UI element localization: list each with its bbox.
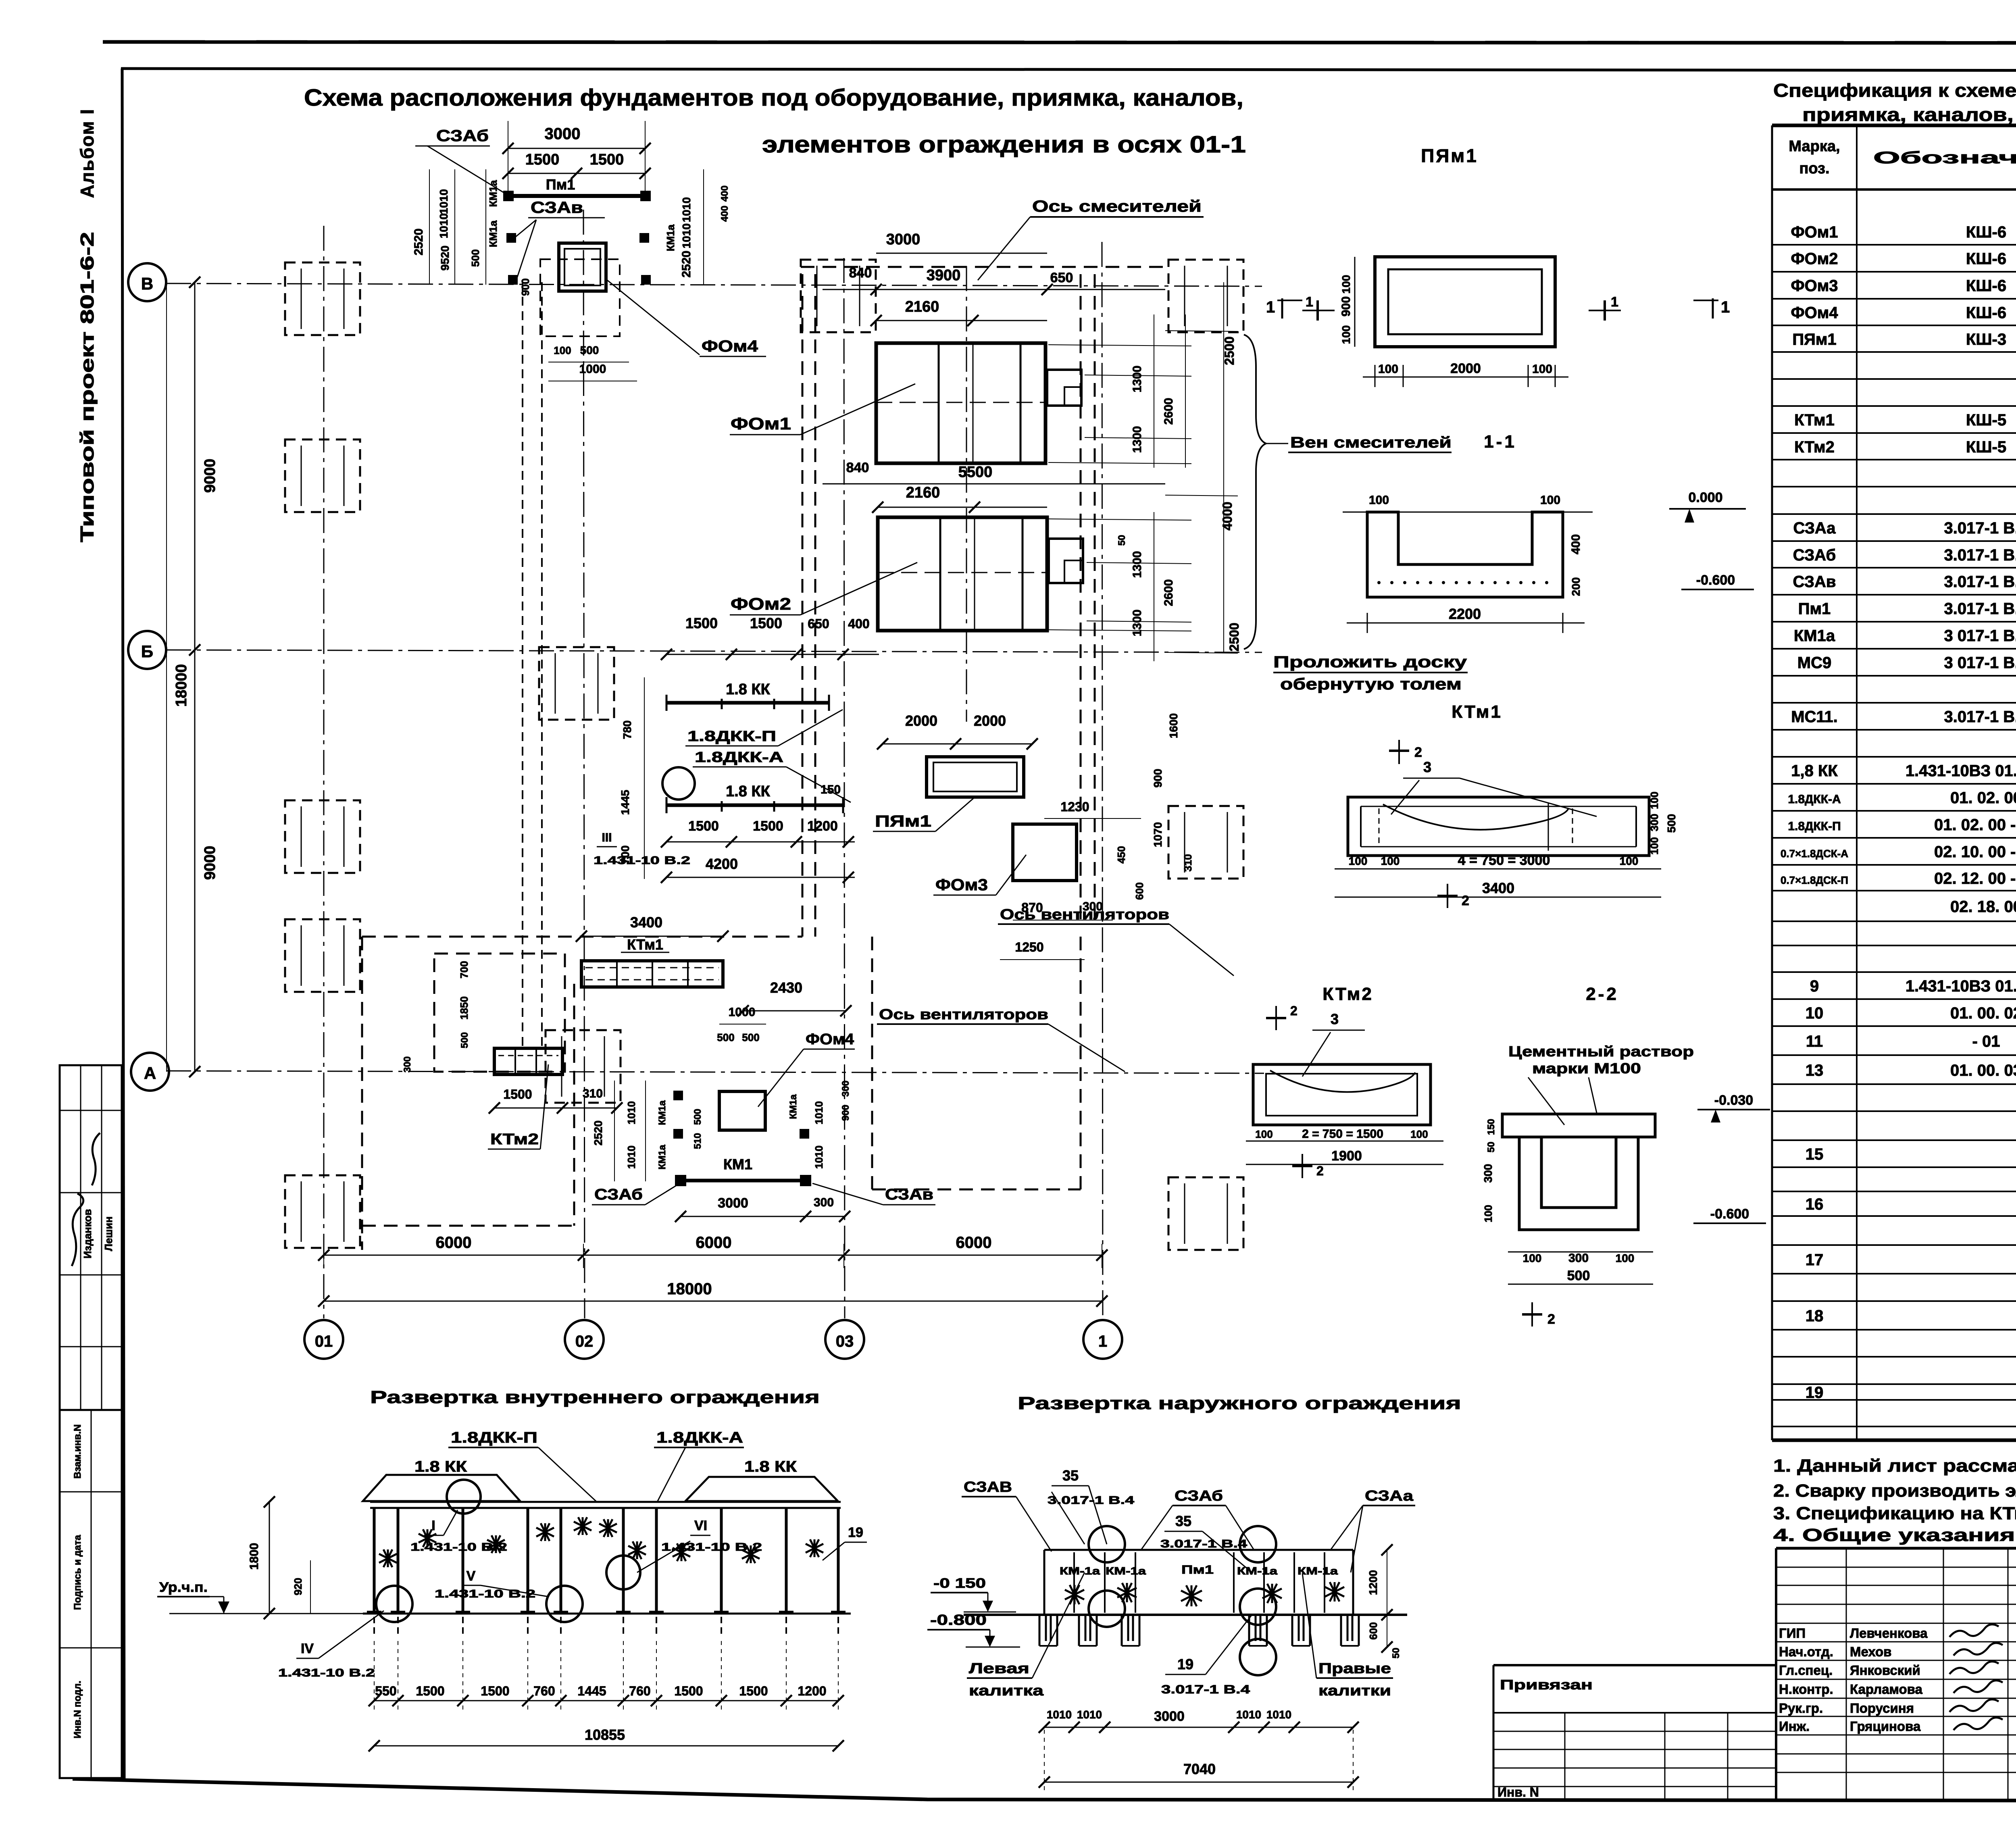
svg-text:КМ-1а: КМ-1а xyxy=(1297,1565,1338,1577)
external dim 7040 xyxy=(1039,1730,1359,1790)
svg-text:3. Спецификацию на КТм1, КТм2,: 3. Спецификацию на КТм1, КТм2, ПЯм1 см. … xyxy=(1773,1503,2016,1523)
dim 3000 top xyxy=(502,121,651,194)
svg-text:2: 2 xyxy=(1414,745,1422,760)
svg-text:Взам.инв.N: Взам.инв.N xyxy=(72,1424,83,1479)
svg-text:2: 2 xyxy=(1290,1004,1297,1018)
svg-text:3.017-1 В.2: 3.017-1 В.2 xyxy=(1944,600,2016,618)
svg-text:3400: 3400 xyxy=(630,914,662,931)
svg-text:Привязан: Привязан xyxy=(1500,1677,1593,1693)
svg-text:Типовой проект 801-6-2: Типовой проект 801-6-2 xyxy=(77,232,98,542)
svg-text:1500: 1500 xyxy=(590,151,624,168)
svg-text:ГИП: ГИП xyxy=(1779,1626,1806,1641)
svg-text:Проложить доску: Проложить доску xyxy=(1273,653,1467,671)
elevation internal title xyxy=(370,1387,820,1407)
svg-text:СЗАв: СЗАв xyxy=(531,199,583,217)
svg-text:КМ1а: КМ1а xyxy=(657,1145,668,1170)
external mesh symbols xyxy=(1065,1582,1344,1606)
label Пм1 xyxy=(546,176,575,193)
svg-text:700: 700 xyxy=(458,961,470,978)
svg-text:2600: 2600 xyxy=(1162,579,1175,606)
svg-text:100: 100 xyxy=(1620,855,1639,867)
svg-text:650: 650 xyxy=(1050,270,1073,285)
table rows details xyxy=(1806,976,2016,1079)
dim 2000 2000 ПЯм1 xyxy=(877,712,1038,750)
svg-text:КМ-1а: КМ-1а xyxy=(1106,1565,1146,1577)
callout V xyxy=(435,1568,548,1600)
svg-text:100: 100 xyxy=(554,344,571,356)
svg-text:КТм1: КТм1 xyxy=(627,936,663,953)
internal fence posts xyxy=(367,1508,846,1613)
label СЗАб top xyxy=(415,127,504,193)
dim 1500 1500 1200 below fence xyxy=(661,818,855,883)
svg-text:Ур.ч.п.: Ур.ч.п. xyxy=(159,1580,208,1595)
svg-text:2: 2 xyxy=(1547,1312,1555,1327)
svg-text:марки М100: марки М100 xyxy=(1532,1060,1641,1077)
table rows channels xyxy=(1794,410,2016,456)
svg-text:03: 03 xyxy=(836,1333,854,1350)
svg-text:А: А xyxy=(144,1064,156,1083)
svg-text:Рук.гр.: Рук.гр. xyxy=(1779,1701,1823,1716)
svg-text:50: 50 xyxy=(1116,535,1127,546)
label Ось вентиляторов 1 xyxy=(998,906,1234,976)
svg-text:2000: 2000 xyxy=(905,712,937,729)
axis line 02 vertical xyxy=(583,210,585,1318)
table rows standard items xyxy=(1806,1144,2016,1325)
table rows posts xyxy=(1781,518,2016,916)
detail ПЯм1 dimensions xyxy=(1339,257,1568,387)
svg-text:1.8ДКК-А: 1.8ДКК-А xyxy=(1788,793,1841,806)
svg-text:КМ1а: КМ1а xyxy=(657,1100,668,1125)
svg-text:Лешин: Лешин xyxy=(102,1216,115,1251)
dashed pit square 11 xyxy=(546,1030,621,1103)
dashed pit square 4 xyxy=(285,919,360,992)
axis circle А xyxy=(131,1053,169,1091)
svg-text:2520: 2520 xyxy=(412,229,425,256)
svg-text:02: 02 xyxy=(575,1333,594,1350)
svg-text:3 017-1 В.5: 3 017-1 В.5 xyxy=(1944,627,2016,645)
svg-text:1230: 1230 xyxy=(1060,800,1089,814)
svg-text:I: I xyxy=(431,1518,435,1533)
dim extension lines right of ФОм2 xyxy=(1048,519,1191,631)
svg-text:760: 760 xyxy=(629,1684,650,1698)
svg-text:3: 3 xyxy=(1331,1011,1339,1027)
svg-text:1600: 1600 xyxy=(1167,713,1180,738)
svg-text:1000: 1000 xyxy=(579,362,606,376)
svg-text:300: 300 xyxy=(840,1081,851,1097)
svg-text:элементов ограждения в осях 01: элементов ограждения в осях 01-1 xyxy=(762,131,1246,158)
svg-text:2600: 2600 xyxy=(1162,398,1175,425)
svg-text:100: 100 xyxy=(1532,362,1552,376)
svg-text:100: 100 xyxy=(1378,362,1398,376)
external below-ground posts xyxy=(1039,1615,1359,1646)
svg-text:1.8 КК: 1.8 КК xyxy=(744,1458,797,1475)
svg-text:9000: 9000 xyxy=(202,459,219,493)
svg-text:6000: 6000 xyxy=(696,1234,732,1252)
svg-text:1.8ДКК-П: 1.8ДКК-П xyxy=(687,728,776,744)
node circle V elev xyxy=(546,1586,583,1622)
foundation ФОм4 bottom xyxy=(719,1091,765,1130)
dashed pit square 2 xyxy=(285,439,360,512)
svg-text:КТм2: КТм2 xyxy=(1322,984,1373,1004)
svg-text:ПЯм1: ПЯм1 xyxy=(875,812,931,830)
svg-text:2000: 2000 xyxy=(974,712,1006,729)
svg-text:1300: 1300 xyxy=(1131,426,1144,453)
svg-text:1.8 КК: 1.8 КК xyxy=(726,783,771,800)
svg-text:Янковский: Янковский xyxy=(1850,1663,1920,1678)
svg-text:02. 18. 00: 02. 18. 00 xyxy=(1950,898,2016,916)
axis line 01 vertical xyxy=(323,226,325,1318)
internal fence ground line xyxy=(363,1613,851,1615)
svg-text:650: 650 xyxy=(808,616,829,631)
svg-text:поз.: поз. xyxy=(1799,160,1829,177)
svg-text:2500: 2500 xyxy=(1227,623,1241,651)
svg-text:840: 840 xyxy=(846,460,869,475)
svg-text:920: 920 xyxy=(292,1578,304,1595)
svg-text:500: 500 xyxy=(469,249,481,267)
svg-text:9: 9 xyxy=(1810,977,1819,995)
svg-text:ФОм1: ФОм1 xyxy=(1791,223,1838,241)
axis circle 01 xyxy=(304,1320,343,1359)
svg-text:1.431-10 В.2: 1.431-10 В.2 xyxy=(435,1587,535,1600)
svg-text:приямка, каналов, элементов ог: приямка, каналов, элементов ограждения в… xyxy=(1802,104,2016,125)
dashed pit square 9 xyxy=(801,260,876,332)
detail КТм1 dimensions xyxy=(1335,791,1678,897)
svg-text:Правые: Правые xyxy=(1318,1660,1391,1676)
svg-text:10: 10 xyxy=(1806,1004,1824,1022)
svg-text:400: 400 xyxy=(719,185,730,202)
svg-text:3.017-1 В.1: 3.017-1 В.1 xyxy=(1944,546,2016,564)
svg-text:9520: 9520 xyxy=(439,246,451,271)
right dim chains of ФОм2 xyxy=(1116,512,1241,661)
svg-text:Ось вентиляторов: Ось вентиляторов xyxy=(1000,906,1169,922)
svg-text:2200: 2200 xyxy=(1449,606,1481,622)
svg-text:1-1: 1-1 xyxy=(1484,432,1517,452)
svg-text:Б: Б xyxy=(141,642,153,661)
svg-text:КТм2: КТм2 xyxy=(1794,438,1835,456)
dashed pit square 7 xyxy=(1168,806,1243,879)
svg-text:6000: 6000 xyxy=(956,1234,992,1252)
channel КТм2 in plan xyxy=(488,1048,562,1149)
svg-text:III: III xyxy=(602,831,612,844)
svg-text:310: 310 xyxy=(1182,854,1194,871)
svg-text:1.8ДКК-П: 1.8ДКК-П xyxy=(1788,820,1841,833)
axis line 03 vertical xyxy=(844,258,845,1318)
svg-text:1010: 1010 xyxy=(1236,1708,1261,1721)
svg-text:4000: 4000 xyxy=(1220,502,1235,530)
svg-text:1: 1 xyxy=(1721,298,1730,316)
label 1.8КК elev right xyxy=(744,1458,797,1475)
svg-text:1500: 1500 xyxy=(685,615,718,631)
label ФОм1 xyxy=(730,384,915,435)
svg-text:1800: 1800 xyxy=(248,1543,261,1570)
internal fence rail xyxy=(370,1502,841,1508)
svg-text:100: 100 xyxy=(1648,791,1660,809)
specification table grid xyxy=(1772,125,2016,1440)
svg-text:3900: 3900 xyxy=(927,267,961,284)
svg-text:100: 100 xyxy=(1523,1252,1542,1264)
dim 1500 1500 650 400 xyxy=(661,615,879,660)
dim 3000 300 bottom xyxy=(675,1195,850,1222)
svg-text:1.431-10 В.2: 1.431-10 В.2 xyxy=(278,1666,375,1679)
svg-text:ФОм3: ФОм3 xyxy=(935,876,988,894)
svg-text:ФОм4: ФОм4 xyxy=(702,337,758,355)
label 1.8ДКК-А elev xyxy=(654,1429,744,1502)
node circle I elev xyxy=(447,1480,481,1514)
label Правые калитки xyxy=(1302,1573,1393,1699)
elevation mark -0.800 xyxy=(927,1612,1020,1647)
frame left border xyxy=(122,69,124,1779)
svg-text:-0.600: -0.600 xyxy=(1710,1206,1749,1222)
svg-text:КШ-6: КШ-6 xyxy=(1966,304,2006,322)
svg-text:6000: 6000 xyxy=(436,1234,472,1252)
svg-text:Пм1: Пм1 xyxy=(1181,1563,1214,1576)
svg-text:-0.030: -0.030 xyxy=(1714,1093,1753,1108)
svg-text:3.017-1 В.2: 3.017-1 В.2 xyxy=(1944,708,2016,726)
svg-text:1445: 1445 xyxy=(619,790,631,815)
svg-text:15: 15 xyxy=(1806,1145,1824,1163)
svg-text:2000: 2000 xyxy=(1450,361,1481,376)
svg-text:5500: 5500 xyxy=(958,464,993,481)
svg-text:Спецификация к схеме расположе: Спецификация к схеме расположения фундам… xyxy=(1773,80,2016,101)
svg-text:17: 17 xyxy=(1806,1251,1824,1269)
svg-text:150: 150 xyxy=(1486,1119,1497,1135)
plan left dimension 9000/9000 xyxy=(189,277,219,1077)
svg-text:Изданков: Изданков xyxy=(81,1209,94,1259)
left stamp upper block xyxy=(60,1065,122,1410)
svg-text:Пм1: Пм1 xyxy=(546,176,575,193)
foundation ФОм1 xyxy=(876,343,1081,463)
channel КТм1 in plan xyxy=(581,936,723,987)
svg-text:КМ1а: КМ1а xyxy=(487,220,499,247)
table caption line 2 xyxy=(1802,104,2016,125)
svg-text:1500: 1500 xyxy=(674,1684,703,1698)
title block signature names xyxy=(1779,1624,2003,1734)
axis circle 03 xyxy=(825,1320,864,1359)
plan bottom dimension 18000 xyxy=(318,1280,1108,1307)
svg-text:-0.800: -0.800 xyxy=(930,1612,987,1628)
svg-text:100: 100 xyxy=(1616,1252,1635,1264)
svg-text:МС9: МС9 xyxy=(1797,654,1831,672)
svg-text:КШ-5: КШ-5 xyxy=(1966,438,2006,456)
svg-text:18000: 18000 xyxy=(173,664,190,707)
svg-text:1.8ДКК-П: 1.8ДКК-П xyxy=(451,1429,537,1446)
svg-text:ПЯм1: ПЯм1 xyxy=(1792,331,1836,348)
svg-text:1500: 1500 xyxy=(688,818,719,834)
svg-text:КМ1: КМ1 xyxy=(723,1156,752,1172)
external dim row xyxy=(1039,1708,1359,1733)
axis circle 02 xyxy=(565,1320,604,1359)
svg-text:3 017-1 В.2: 3 017-1 В.2 xyxy=(1944,654,2016,672)
svg-text:1200: 1200 xyxy=(1367,1570,1379,1595)
svg-text:50: 50 xyxy=(1486,1142,1497,1153)
svg-text:1010: 1010 xyxy=(680,223,693,248)
svg-text:100: 100 xyxy=(1648,837,1660,854)
dims between ФОм1 ФОм2 xyxy=(823,460,1165,513)
detail ПЯм1 plan xyxy=(1302,257,1621,347)
svg-text:Гл.спец.: Гл.спец. xyxy=(1779,1663,1833,1678)
svg-text:1. Данный лист рассматривать с: 1. Данный лист рассматривать совместно с… xyxy=(1773,1456,2016,1476)
svg-text:1010: 1010 xyxy=(625,1101,637,1124)
note проложить доску xyxy=(1273,653,1468,693)
drawing title line 1 xyxy=(304,85,1243,111)
svg-text:Марка,: Марка, xyxy=(1789,138,1840,155)
svg-text:СЗАа: СЗАа xyxy=(1365,1487,1414,1504)
label СЗАб ext xyxy=(1141,1487,1254,1550)
svg-text:1010: 1010 xyxy=(1266,1708,1291,1721)
label 1.8ДКК-П elev xyxy=(448,1429,597,1502)
svg-text:1010: 1010 xyxy=(437,189,450,214)
svg-text:3000: 3000 xyxy=(1154,1709,1185,1724)
svg-text:11: 11 xyxy=(1806,1033,1823,1050)
svg-text:0.000: 0.000 xyxy=(1688,490,1722,505)
detail 2-2 section xyxy=(1482,1093,1770,1230)
svg-text:КМ-1а: КМ-1а xyxy=(1060,1565,1100,1577)
svg-text:300: 300 xyxy=(814,1196,834,1209)
svg-text:1300: 1300 xyxy=(1131,366,1144,393)
svg-text:СЗАв: СЗАв xyxy=(885,1186,933,1203)
svg-text:10855: 10855 xyxy=(585,1726,625,1743)
label Левая калитка xyxy=(967,1572,1085,1699)
note цементный раствор xyxy=(1508,1043,1694,1125)
svg-text:100: 100 xyxy=(1340,275,1352,294)
right dim chains of ФОм1 xyxy=(1131,282,1237,652)
title block signature grid xyxy=(1776,1548,2016,1799)
svg-text:1900: 1900 xyxy=(1331,1148,1362,1164)
detail КТм2 label xyxy=(1322,984,1373,1004)
internal fence footing stubs xyxy=(374,1617,838,1636)
svg-text:18000: 18000 xyxy=(667,1280,712,1298)
svg-text:1: 1 xyxy=(1611,294,1618,310)
svg-text:2500: 2500 xyxy=(1222,336,1237,365)
svg-text:ФОм2: ФОм2 xyxy=(1791,250,1838,268)
Ур.ч.п. mark xyxy=(157,1580,363,1614)
dims 1500 310 xyxy=(489,1087,623,1114)
node circle III xyxy=(662,767,695,800)
svg-text:СЗАб: СЗАб xyxy=(1793,546,1836,564)
svg-text:100: 100 xyxy=(1369,494,1389,507)
callout I xyxy=(410,1510,507,1553)
dashed pit square 10 xyxy=(539,647,614,720)
svg-text:2430: 2430 xyxy=(770,979,802,996)
svg-text:Инв.N подл.: Инв.N подл. xyxy=(72,1680,83,1738)
svg-text:600: 600 xyxy=(1133,882,1145,900)
svg-text:КМ1а: КМ1а xyxy=(664,224,677,251)
callout 19 elev xyxy=(823,1525,867,1560)
notes under table xyxy=(1773,1456,2016,1545)
sheet top edge line xyxy=(103,42,2016,43)
svg-text:СЗАв: СЗАв xyxy=(1793,573,1836,591)
svg-text:СЗАВ: СЗАВ xyxy=(964,1478,1012,1495)
svg-text:Цементный раствор: Цементный раствор xyxy=(1508,1043,1694,1060)
svg-text:СЗАа: СЗАа xyxy=(1793,519,1836,537)
svg-text:13: 13 xyxy=(1806,1062,1824,1079)
label СЗАа ext xyxy=(1331,1487,1415,1572)
svg-text:КМ1а: КМ1а xyxy=(487,180,499,207)
svg-text:Вен смесителей: Вен смесителей xyxy=(1290,434,1452,451)
svg-text:ПЯм1: ПЯм1 xyxy=(1421,145,1478,166)
svg-text:3: 3 xyxy=(1423,759,1431,775)
svg-text:400: 400 xyxy=(848,616,869,631)
svg-text:1500: 1500 xyxy=(481,1684,509,1698)
table rows materials xyxy=(1806,1383,2016,1423)
detail 1-1 label xyxy=(1484,432,1517,452)
left rotated dim chain (2520/1010) xyxy=(412,169,531,296)
svg-text:01. 00. 03: 01. 00. 03 xyxy=(1950,1062,2016,1079)
svg-text:3000: 3000 xyxy=(545,125,581,143)
svg-text:1.431-10ВЗ 01. 01. 00: 1.431-10ВЗ 01. 01. 00 xyxy=(1906,762,2016,780)
svg-text:3.017-1 В.4: 3.017-1 В.4 xyxy=(1161,1683,1250,1696)
svg-text:3.017-1 В.1: 3.017-1 В.1 xyxy=(1944,519,2016,537)
svg-text:Карламова: Карламова xyxy=(1850,1682,1923,1697)
svg-text:400: 400 xyxy=(1569,534,1583,554)
label 1.8КК elev left xyxy=(414,1458,467,1475)
svg-text:1010: 1010 xyxy=(1077,1708,1102,1721)
svg-text:18: 18 xyxy=(1806,1307,1824,1325)
svg-text:550: 550 xyxy=(375,1684,396,1698)
detail 1-1 dimensions xyxy=(1347,490,1754,633)
node circle VI elev xyxy=(606,1556,640,1589)
callout 35 3.017-1 В.4 left xyxy=(1048,1467,1135,1544)
svg-text:1.8 КК: 1.8 КК xyxy=(726,681,771,698)
building outline right dashed double vertical xyxy=(1081,274,1095,923)
svg-text:Альбом I: Альбом I xyxy=(77,108,98,198)
svg-text:3.017-1 В.4: 3.017-1 В.4 xyxy=(1160,1537,1248,1550)
building outline left dashed double vertical xyxy=(802,274,815,937)
svg-text:1.431-10 В.2: 1.431-10 В.2 xyxy=(410,1541,507,1553)
rotated dims 780 1445 700 xyxy=(594,677,690,879)
svg-text:калитка: калитка xyxy=(969,1682,1044,1699)
right rotated dim chain (1010/2520) xyxy=(640,169,730,285)
label СЗАв top xyxy=(515,199,605,278)
label Вен смесителей with brace xyxy=(1244,335,1452,649)
table header texts xyxy=(1789,138,2016,177)
svg-text:2160: 2160 xyxy=(905,298,939,315)
panel Пм1 bar xyxy=(509,194,645,198)
callout 35 3.017-1 В.4 center xyxy=(1160,1513,1252,1572)
label 1.8ДКК-А xyxy=(693,749,851,802)
dim 3400 над КТм1 xyxy=(576,914,729,942)
svg-text:Порусиня: Порусиня xyxy=(1850,1701,1914,1716)
svg-text:760: 760 xyxy=(533,1684,555,1698)
svg-text:900: 900 xyxy=(519,278,531,296)
svg-text:300: 300 xyxy=(402,1056,413,1072)
callout 19 3.017-1 В.4 xyxy=(1161,1615,1252,1696)
svg-text:500: 500 xyxy=(580,344,599,356)
margin text Альбом I xyxy=(77,108,98,198)
svg-text:1: 1 xyxy=(1306,294,1313,310)
svg-text:КМ1а: КМ1а xyxy=(788,1094,799,1119)
axis line А horizontal xyxy=(166,1071,1264,1073)
svg-text:3000: 3000 xyxy=(718,1195,748,1211)
detail ПЯм1 label xyxy=(1421,145,1478,166)
axis circle Б xyxy=(128,631,166,669)
section mark Т1 right xyxy=(1693,298,1730,319)
labels СЗАб СЗАв bottom xyxy=(592,1183,935,1205)
svg-text:2-2: 2-2 xyxy=(1586,984,1619,1004)
detail 1-1 section xyxy=(1343,512,1593,597)
svg-text:ФОм4: ФОм4 xyxy=(806,1031,854,1048)
label Ось вентиляторов 2 xyxy=(877,1006,1125,1072)
svg-text:ФОм3: ФОм3 xyxy=(1791,277,1838,295)
svg-text:КШ-6: КШ-6 xyxy=(1966,250,2006,268)
external right dims xyxy=(1367,1544,1402,1658)
svg-text:35: 35 xyxy=(1175,1513,1191,1529)
svg-text:Левая: Левая xyxy=(969,1660,1029,1676)
СЗАб post squares on panel xyxy=(504,192,650,200)
external fence band xyxy=(964,1550,1407,1615)
detail 2-2 label xyxy=(1586,984,1619,1004)
building outline top dashed xyxy=(801,266,1165,268)
